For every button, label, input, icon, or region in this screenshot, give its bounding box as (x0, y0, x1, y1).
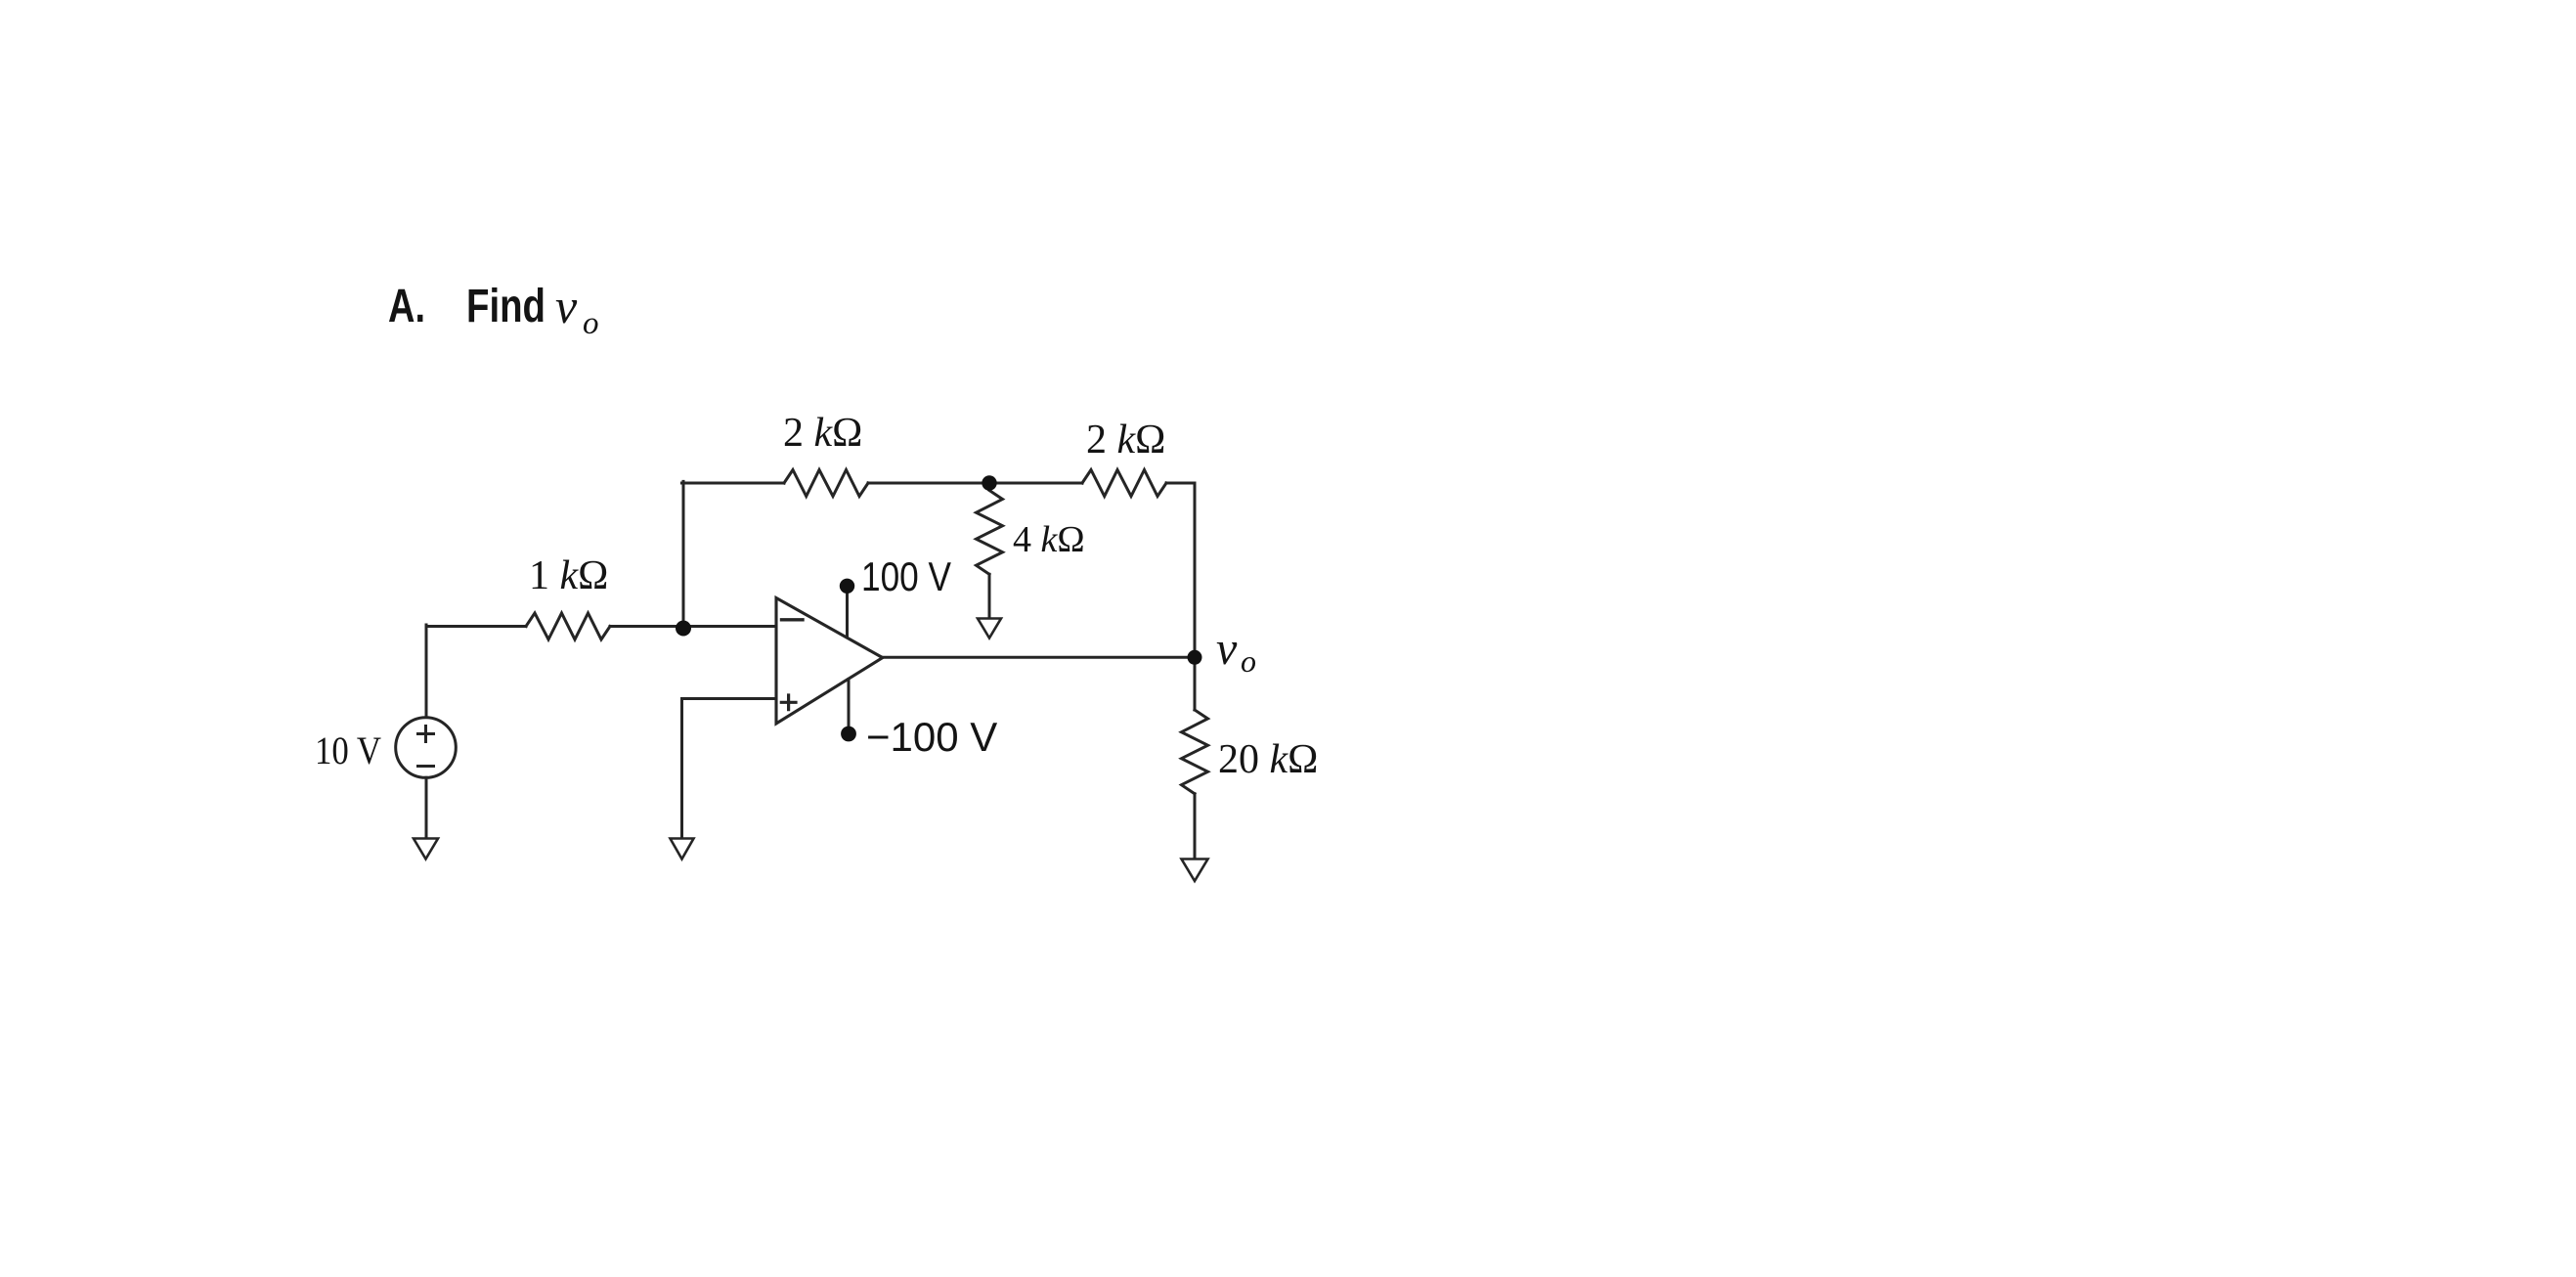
wire vo node down (1194, 657, 1197, 710)
svg-text:o: o (1241, 643, 1256, 679)
svg-text:Find: Find (466, 281, 546, 332)
svg-text:A.: A. (388, 281, 425, 332)
ground under plus input (671, 839, 694, 859)
node +100V supply dot (840, 579, 854, 594)
wire 4k to ground (988, 574, 991, 617)
wire source vertical (425, 625, 428, 718)
node top junction dot (982, 475, 996, 490)
node vo dot (1188, 650, 1202, 665)
resistor 1 kΩ (526, 613, 610, 639)
wire top left segment (681, 482, 784, 485)
svg-text:v: v (555, 279, 578, 333)
resistor 20 kΩ (1182, 710, 1208, 794)
svg-text:o: o (583, 306, 599, 341)
wire 20k to ground (1194, 794, 1197, 858)
op-amp plus input symbol (781, 695, 796, 710)
node -100V supply dot (841, 727, 856, 742)
op-amp U1 triangle (776, 598, 883, 725)
svg-text:v: v (1216, 623, 1238, 675)
resistor 2 kΩ left (784, 470, 868, 497)
wire top right corner down to vo (1166, 483, 1195, 657)
svg-text:20 kΩ: 20 kΩ (1218, 737, 1318, 782)
ground under 20 kΩ (1182, 859, 1208, 882)
plus sign of source (418, 727, 434, 742)
svg-text:100 V: 100 V (861, 553, 951, 599)
ground under 4 kΩ (978, 619, 1001, 638)
wire top middle segment (868, 482, 1082, 485)
resistor 4 kΩ vertical (977, 491, 1003, 575)
source V1 10 V circle (396, 718, 457, 778)
svg-text:10 V: 10 V (315, 728, 381, 772)
wire below source (425, 777, 428, 837)
wire output (883, 656, 1196, 659)
op-amp minus input symbol (782, 618, 804, 621)
wire feedback vertical (682, 481, 685, 628)
wire non-inverting input (682, 699, 777, 838)
wire positive supply (846, 587, 849, 636)
svg-text:1 kΩ: 1 kΩ (529, 553, 608, 598)
svg-text:2 kΩ: 2 kΩ (1086, 418, 1165, 462)
wire negative supply (848, 680, 851, 734)
svg-text:−100 V: −100 V (866, 714, 997, 760)
wire input horizontal from source to op-amp (426, 625, 776, 628)
ground under source (414, 839, 438, 859)
minus sign of source (418, 765, 434, 768)
node inverting input junction dot (676, 621, 691, 637)
title "A. Find vo" (388, 279, 599, 341)
resistor 2 kΩ right (1082, 470, 1166, 497)
svg-text:2 kΩ: 2 kΩ (783, 411, 862, 456)
svg-text:4 kΩ: 4 kΩ (1013, 519, 1085, 560)
